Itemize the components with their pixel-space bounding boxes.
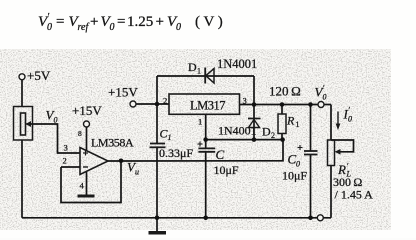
node: ground rail at C1 xyxy=(155,216,160,221)
capacitor C0 plates xyxy=(304,151,318,155)
rheostat RL body xyxy=(328,140,335,166)
svg-text:( V ): ( V ) xyxy=(195,14,223,30)
rheostat wiper arrowhead xyxy=(335,149,341,155)
wire: LM317 adjust pin down xyxy=(205,114,207,148)
svg-text:0: 0 xyxy=(348,115,352,124)
capacitor C plus sign xyxy=(198,142,203,147)
diode D1 triangle xyxy=(206,69,214,84)
wire: D1/D2 vertical branch xyxy=(253,76,255,140)
potentiometer RP element bar xyxy=(21,113,26,135)
node: C0 top on output line xyxy=(308,102,313,107)
resistor R1 body xyxy=(278,114,286,134)
svg-text:120 Ω: 120 Ω xyxy=(269,84,301,99)
op-amp U1 LM358A triangle xyxy=(80,148,108,175)
node: adjust junction at pin1 xyxy=(203,137,208,142)
svg-text:0: 0 xyxy=(47,22,52,33)
svg-text:2: 2 xyxy=(163,96,167,106)
svg-text:10μF: 10μF xyxy=(282,169,307,183)
wire: +15V input vertical rail (D1 cathode / C1 / ground) xyxy=(156,76,158,143)
scan noise region xyxy=(0,49,391,230)
svg-text:0: 0 xyxy=(296,160,300,169)
wire: op-amp pin4 to ground bar xyxy=(86,172,88,195)
node: R1 top on output line xyxy=(280,102,285,107)
node: op-amp output junction xyxy=(119,159,124,164)
svg-text:′: ′ xyxy=(323,84,325,93)
svg-text:=: = xyxy=(56,14,64,30)
svg-text:1: 1 xyxy=(168,133,172,142)
wire: adjust net horizontal xyxy=(206,139,283,141)
wire: R1 bottom lead xyxy=(281,134,283,140)
svg-text:/ 1.45 A: / 1.45 A xyxy=(335,188,374,202)
potentiometer RP outer box xyxy=(14,107,33,141)
node: D2 bottom junction xyxy=(252,137,257,142)
svg-text:1: 1 xyxy=(296,120,300,129)
svg-text:+5V: +5V xyxy=(27,68,51,83)
op-amp - input sign xyxy=(83,166,88,168)
svg-text:C: C xyxy=(216,147,225,162)
svg-text:0: 0 xyxy=(110,22,115,33)
svg-text:D: D xyxy=(262,125,271,139)
wire: potentiometer bottom to ground rail xyxy=(21,140,23,218)
terminal +5V xyxy=(19,74,25,80)
svg-text:0: 0 xyxy=(176,22,181,33)
svg-text:1: 1 xyxy=(197,67,201,76)
svg-text:ref: ref xyxy=(78,22,90,33)
wire: rheostat wiper loop xyxy=(331,140,354,152)
svg-text:LM358A: LM358A xyxy=(91,136,134,150)
diode D2 triangle xyxy=(249,120,260,128)
capacitor C plates xyxy=(198,148,215,151)
svg-text:3: 3 xyxy=(64,143,68,153)
svg-text:1N4001: 1N4001 xyxy=(218,124,257,138)
svg-text:1N4001: 1N4001 xyxy=(217,57,257,71)
svg-text:u: u xyxy=(135,168,139,177)
wire: +5V terminal down to potentiometer xyxy=(21,80,23,107)
diode D1 cathode bar xyxy=(204,68,206,84)
svg-text:8: 8 xyxy=(78,129,82,138)
svg-text:1: 1 xyxy=(198,117,202,127)
LM317 U2 box xyxy=(169,94,240,114)
svg-text:+15V: +15V xyxy=(108,85,138,100)
svg-text:0.33μF: 0.33μF xyxy=(159,146,193,160)
wire: C bottom to ground rail xyxy=(205,152,207,218)
svg-text:D: D xyxy=(188,60,197,74)
wire: main ground stem xyxy=(156,218,158,231)
potentiometer wiper arrowhead xyxy=(26,121,32,127)
wire: C0 branch vertical xyxy=(310,105,312,151)
capacitor C0 plus sign xyxy=(298,145,303,150)
svg-text:R: R xyxy=(286,114,295,128)
capacitor C1 plates xyxy=(150,144,166,148)
wire: top protection-diode wire xyxy=(157,75,254,77)
terminal +15V LM317 xyxy=(130,101,136,107)
svg-text:+15V: +15V xyxy=(72,103,102,118)
node: +15V input junction xyxy=(155,102,160,107)
svg-text:2: 2 xyxy=(271,131,275,140)
terminal +15V op-amp xyxy=(84,121,90,127)
svg-text:′: ′ xyxy=(348,106,350,115)
current arrow I'o xyxy=(336,112,341,131)
node: ground rail at C xyxy=(203,216,208,221)
wire: +15V terminal to LM317 pin2 xyxy=(136,103,169,105)
wire: ground bottom rail xyxy=(22,217,331,219)
equation top xyxy=(38,12,223,33)
node: ground rail at C0 xyxy=(308,216,313,221)
main ground bar xyxy=(149,231,167,235)
open terminals xyxy=(19,74,324,221)
svg-text:+: + xyxy=(156,14,164,30)
svg-text:1.25: 1.25 xyxy=(127,14,153,30)
op-amp + input sign xyxy=(83,151,88,156)
wire: right edge vertical to load xyxy=(330,105,332,141)
terminal ground output xyxy=(317,215,323,221)
node: R1 bottom junction xyxy=(280,137,285,142)
wire: feedback loop output to inverting input xyxy=(61,161,121,203)
svg-text:+: + xyxy=(90,14,98,30)
node: D2 top on output line xyxy=(252,102,257,107)
diode D2 cathode bar xyxy=(248,118,261,120)
svg-text:3: 3 xyxy=(243,96,247,106)
wire: R1 top lead xyxy=(281,105,283,115)
wire: op-amp pin2 input xyxy=(61,166,80,168)
wire: pot wiper to op-amp pin3 xyxy=(27,124,81,153)
svg-text:10μF: 10μF xyxy=(214,163,239,177)
svg-text:2: 2 xyxy=(63,156,67,166)
wire: op-amp output to adjust net xyxy=(108,140,283,161)
svg-text:=: = xyxy=(117,14,125,30)
svg-text:0: 0 xyxy=(54,116,58,125)
svg-text:LM317: LM317 xyxy=(190,99,225,113)
wire: LM317 output line to right edge xyxy=(240,104,332,106)
op-amp ground bar (pin4) xyxy=(78,195,95,198)
terminal V'o output xyxy=(318,102,324,108)
wire: op-amp V+ pin8 xyxy=(86,127,88,152)
svg-text:0: 0 xyxy=(323,93,327,102)
junction dots xyxy=(119,102,313,220)
